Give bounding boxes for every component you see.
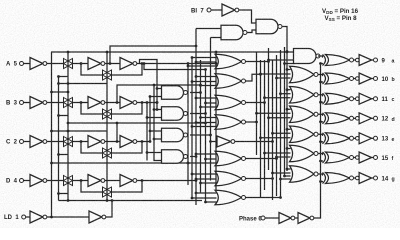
node xyxy=(146,116,149,119)
wire gate input stub xyxy=(269,59,295,61)
inverter latch D2 xyxy=(120,175,137,187)
XOR gate X6 xyxy=(323,152,354,163)
wire feedback right xyxy=(112,142,143,154)
node xyxy=(279,178,282,181)
wire M4 out xyxy=(246,121,257,123)
node xyxy=(286,68,289,71)
wire LD rail vertical xyxy=(51,52,53,217)
node xyxy=(149,130,152,133)
NOR gate R3 segment c xyxy=(290,86,319,103)
input label BI pin 7 xyxy=(191,8,204,14)
NAND gate N4 xyxy=(162,150,188,164)
node xyxy=(286,50,289,53)
wire bus vertical xyxy=(284,47,286,177)
wire data A xyxy=(137,63,216,65)
wire blanking rail xyxy=(283,27,288,172)
wire gate input stub xyxy=(285,175,291,177)
inverter LD first xyxy=(30,211,47,223)
wire phase stub xyxy=(321,63,324,65)
node xyxy=(319,120,322,123)
wire track rowD upper xyxy=(52,162,189,164)
wire track rowB complement xyxy=(117,85,201,103)
wire xyxy=(105,102,120,104)
node xyxy=(195,75,198,78)
inverter C input buffer xyxy=(30,136,47,148)
node xyxy=(153,108,156,111)
node xyxy=(195,153,198,156)
node xyxy=(156,101,159,104)
wire gate input stub xyxy=(265,97,291,99)
node latch output xyxy=(141,101,144,104)
node xyxy=(191,173,194,176)
wire bus vertical xyxy=(276,55,278,196)
wire NAND2 out xyxy=(190,113,206,115)
node xyxy=(199,84,202,87)
node xyxy=(283,175,286,178)
wire stub rowB TG1 top xyxy=(51,91,69,93)
wire phase stub xyxy=(321,121,324,123)
node xyxy=(279,92,282,95)
node latch output xyxy=(141,62,144,65)
node xyxy=(275,156,278,159)
node xyxy=(191,125,194,128)
wire phase rail xyxy=(314,64,321,219)
wire R3 to XOR xyxy=(318,95,323,96)
wire bus vertical xyxy=(264,60,266,190)
wire bus vertical xyxy=(272,60,274,200)
transmission gate TG4b xyxy=(103,187,112,197)
node xyxy=(109,62,112,65)
node xyxy=(319,180,322,183)
wire xyxy=(265,217,279,219)
node xyxy=(286,128,289,131)
XOR gate X2 xyxy=(323,73,354,84)
inverter Ph2 xyxy=(298,213,314,224)
XOR gate X3 xyxy=(323,93,354,104)
wire xyxy=(211,9,222,11)
NOR gate R7 segment g xyxy=(290,166,319,183)
inverter latch C1 xyxy=(88,136,105,148)
output pin 12 segment d xyxy=(374,116,378,120)
node xyxy=(255,112,258,115)
wire gate input stub xyxy=(196,61,217,63)
NOR gate M7 xyxy=(215,190,246,205)
wire xyxy=(24,63,30,65)
wire M6 out xyxy=(246,178,273,180)
node xyxy=(204,112,207,115)
wire gate input stub xyxy=(192,197,217,199)
node xyxy=(259,73,262,76)
node xyxy=(275,157,278,160)
input label Ph pin 6 xyxy=(239,216,262,222)
wire gate input stub xyxy=(188,65,217,67)
wire data B xyxy=(137,102,157,104)
output pin 10 segment b xyxy=(374,77,378,81)
wire gate input stub xyxy=(188,162,217,164)
inverter BI xyxy=(222,4,239,16)
node xyxy=(187,162,190,165)
node xyxy=(204,158,207,161)
node xyxy=(116,101,119,104)
wire gate input stub xyxy=(281,93,291,95)
output pin 11 segment c xyxy=(374,97,378,101)
wire xyxy=(105,180,120,182)
wire gate input stub xyxy=(285,63,295,65)
wire bus vertical xyxy=(195,29,197,206)
wire gate input stub xyxy=(277,156,291,158)
node xyxy=(319,62,322,65)
wire xyxy=(47,141,64,143)
wire phase stub xyxy=(321,141,324,143)
node xyxy=(195,178,198,181)
node xyxy=(153,138,156,141)
inverter B input buffer xyxy=(30,97,47,109)
NOR gate M1 xyxy=(215,54,246,69)
wire gate input stub xyxy=(196,178,217,180)
node xyxy=(195,155,198,158)
NOR gate R5 segment e xyxy=(290,126,319,143)
node xyxy=(156,87,159,90)
wire xyxy=(157,88,162,90)
node xyxy=(286,51,289,54)
output label 9 a xyxy=(382,58,386,64)
wire gate input stub xyxy=(206,201,217,203)
node xyxy=(263,101,266,104)
wire R1 to XOR xyxy=(318,56,323,57)
node xyxy=(209,134,212,137)
wire blanking stub xyxy=(287,89,291,91)
input pin BI xyxy=(207,8,211,12)
node xyxy=(67,91,70,94)
wire gate input stub xyxy=(192,126,217,128)
output pin 14 segment g xyxy=(374,176,378,180)
wire R5 to XOR xyxy=(318,134,323,135)
wire xyxy=(26,216,30,218)
node xyxy=(263,152,266,155)
wire LD top bus to segment a gate xyxy=(51,51,294,53)
transmission gate TG2a xyxy=(64,98,73,108)
wire TG1 control rail xyxy=(67,52,69,201)
output buffer 13 xyxy=(356,137,360,141)
wire gate input stub xyxy=(261,137,291,139)
wire bus vertical xyxy=(256,52,258,155)
wire LD-bar bottom bus xyxy=(59,200,203,202)
NAND gate blanking B2 xyxy=(256,19,282,34)
wire xyxy=(248,30,257,33)
node xyxy=(57,82,60,85)
node xyxy=(191,56,194,59)
node xyxy=(199,106,202,109)
wire NAND1 out xyxy=(190,92,201,94)
node xyxy=(191,197,194,200)
input label B pin 3 xyxy=(6,101,18,107)
wire gate input stub xyxy=(196,153,217,155)
node xyxy=(195,121,198,124)
output pin 9 segment a xyxy=(374,58,378,62)
node xyxy=(255,121,258,124)
node xyxy=(195,192,198,195)
node xyxy=(195,97,198,100)
node xyxy=(279,196,282,199)
NOR gate M2 xyxy=(215,74,246,89)
input pin LD xyxy=(22,215,26,219)
wire feedback left xyxy=(81,142,103,154)
wire feedback left xyxy=(81,103,103,115)
wire xyxy=(47,180,64,182)
wire M7 out xyxy=(246,197,281,199)
XOR gate X7 xyxy=(323,173,354,184)
node xyxy=(286,88,289,91)
wire data D xyxy=(137,180,196,182)
wire bus vertical xyxy=(191,57,193,198)
wire xyxy=(354,98,356,100)
output buffer 10 xyxy=(356,77,360,81)
node xyxy=(57,114,60,117)
node xyxy=(195,61,198,64)
node xyxy=(204,68,207,71)
wire xyxy=(354,78,356,80)
node xyxy=(111,199,114,202)
node xyxy=(209,140,212,143)
wire xyxy=(372,59,374,61)
node xyxy=(199,91,202,94)
wire xyxy=(73,180,89,182)
wire M3 out xyxy=(246,102,265,104)
power label VSS = Pin 8 xyxy=(325,15,358,22)
wire gate input stub xyxy=(281,178,291,180)
NOR gate R4 segment d xyxy=(290,106,319,123)
wire xyxy=(354,59,356,61)
wire xyxy=(47,102,64,104)
NAND gate N2 xyxy=(162,107,188,121)
wire bus vertical xyxy=(280,50,282,198)
node xyxy=(195,45,198,48)
node xyxy=(319,81,322,84)
wire M2 out xyxy=(246,74,261,81)
wire feedback left xyxy=(81,181,103,193)
NOR gate R6 segment f xyxy=(290,145,319,162)
wire bus vertical xyxy=(260,60,262,198)
input pin C xyxy=(20,140,24,144)
NAND gate N1 xyxy=(162,86,188,100)
input pin A xyxy=(20,62,24,66)
output pin 15 segment f xyxy=(374,156,378,160)
wire TG control stub xyxy=(59,115,69,117)
inverter latch A2 xyxy=(120,58,137,70)
wire gate input stub xyxy=(277,77,291,79)
node latch input xyxy=(80,140,83,143)
wire R2 to XOR xyxy=(318,75,323,76)
wire TG control stub xyxy=(59,193,69,195)
inverter A input buffer xyxy=(30,58,47,70)
wire gate input stub xyxy=(265,152,291,154)
node xyxy=(153,84,156,87)
wire track y69 xyxy=(144,64,206,70)
wire xyxy=(372,78,374,80)
inverter latch A1 xyxy=(88,58,105,70)
wire blanking stub xyxy=(287,148,291,150)
node xyxy=(67,199,70,202)
node xyxy=(271,132,274,135)
wire xyxy=(354,157,356,159)
wire feedback left xyxy=(81,64,103,76)
inverter latch C2 xyxy=(120,136,137,148)
wire xyxy=(150,130,162,132)
wire xyxy=(105,141,120,143)
XOR gate X4 xyxy=(323,113,354,124)
wire xyxy=(211,37,222,39)
wire xyxy=(372,137,374,139)
XOR gate X1 xyxy=(323,55,354,66)
wire phase stub xyxy=(321,181,324,183)
wire bus vertical xyxy=(210,38,212,181)
wire gate input stub xyxy=(201,117,217,119)
node xyxy=(271,140,274,143)
node xyxy=(275,77,278,80)
wire phase stub xyxy=(321,160,324,162)
NOR gate M4 xyxy=(215,115,246,130)
input label A pin 5 xyxy=(6,62,18,68)
wire xyxy=(154,109,162,111)
node xyxy=(204,201,207,204)
wire gate input stub xyxy=(196,97,217,99)
NOR gate M5 xyxy=(215,151,246,166)
wire track rowA complement xyxy=(110,46,196,64)
node xyxy=(149,140,152,143)
inverter M8 xyxy=(211,141,218,143)
wire track y59 xyxy=(140,60,158,110)
node xyxy=(156,101,159,104)
node xyxy=(156,108,159,111)
wire xyxy=(105,63,120,65)
node xyxy=(204,102,207,105)
node xyxy=(215,62,218,65)
inverter Ph1 xyxy=(279,213,295,224)
wire xyxy=(372,98,374,100)
node xyxy=(50,130,53,133)
wire rail x58 xyxy=(58,77,60,201)
node xyxy=(286,147,289,150)
wire phase stub xyxy=(321,81,324,83)
wire xyxy=(147,152,162,154)
inverter latch D1 xyxy=(88,175,105,187)
node xyxy=(50,91,53,94)
wire feeder x147 xyxy=(146,103,148,161)
wire gate input stub xyxy=(206,102,217,104)
output buffer 12 xyxy=(356,117,360,121)
node xyxy=(146,151,149,154)
NAND gate N3 xyxy=(162,128,188,142)
input pin Ph xyxy=(261,216,265,220)
wire feedback right xyxy=(112,181,143,193)
wire bus vertical xyxy=(205,70,207,203)
wire stub rowC TG1 top xyxy=(51,130,107,132)
inverter D input buffer xyxy=(30,175,47,187)
output buffer 11 xyxy=(356,97,360,101)
wire R6 to XOR xyxy=(318,154,323,155)
input pin B xyxy=(20,101,24,105)
wire NAND3 out xyxy=(190,134,211,136)
wire gate input stub xyxy=(261,73,291,75)
input label D pin 4 xyxy=(6,179,18,185)
wire TG2 control rail xyxy=(106,52,108,201)
transmission gate TG4a xyxy=(64,176,73,186)
NOR gate M3 xyxy=(215,95,246,110)
output buffer 15 xyxy=(356,156,360,160)
input label C pin 2 xyxy=(6,140,18,146)
transmission gate TG1a xyxy=(64,59,73,69)
output label 12 d xyxy=(382,117,389,123)
node xyxy=(187,62,190,65)
wire xyxy=(73,102,89,104)
output label 11 c xyxy=(382,97,389,103)
wire gate input stub xyxy=(201,85,217,87)
input pin D xyxy=(20,179,24,183)
wire xyxy=(147,117,162,119)
node xyxy=(187,162,190,165)
node xyxy=(143,62,146,65)
node xyxy=(199,116,202,119)
node xyxy=(57,75,60,78)
wire xyxy=(196,28,221,30)
node xyxy=(199,182,202,185)
wire gate input stub xyxy=(257,112,291,114)
wire gate input stub xyxy=(192,173,217,175)
wire LD-bar riser xyxy=(106,201,112,218)
wire blanking stub xyxy=(287,108,291,110)
wire gate input stub xyxy=(269,117,291,119)
wire xyxy=(24,102,30,104)
node xyxy=(259,136,262,139)
wire feedback right xyxy=(112,103,143,115)
node xyxy=(67,130,70,133)
wire gate input stub xyxy=(196,76,217,78)
node latch input xyxy=(80,179,83,182)
NAND gate blanking B1 xyxy=(221,25,247,40)
node xyxy=(57,153,60,156)
node latch input xyxy=(80,101,83,104)
inverter latch B1 xyxy=(88,97,105,109)
node xyxy=(319,101,322,104)
wire M1 out xyxy=(246,61,269,63)
wire stub rowA TG2 bottom xyxy=(59,83,108,85)
output buffer 14 xyxy=(356,176,360,180)
wire xyxy=(24,141,30,143)
wire bus vertical xyxy=(215,52,217,190)
wire xyxy=(47,63,64,65)
wire R4 to XOR xyxy=(318,114,323,115)
wire xyxy=(150,96,162,98)
output buffer 9 xyxy=(356,58,360,62)
node xyxy=(57,192,60,195)
wire xyxy=(295,217,298,219)
wire gate input stub xyxy=(192,57,217,59)
node xyxy=(267,60,270,63)
wire xyxy=(154,138,162,140)
wire feeder x154 xyxy=(153,85,155,153)
wire track y123 xyxy=(68,122,206,124)
wire track rowC complement xyxy=(116,123,118,142)
transmission gate TG2b xyxy=(103,109,112,119)
output label 15 f xyxy=(382,156,389,162)
wire xyxy=(372,117,374,119)
output label 10 b xyxy=(382,77,389,83)
node xyxy=(267,116,270,119)
wire xyxy=(372,157,374,159)
node xyxy=(204,122,207,125)
XOR gate X5 xyxy=(323,133,354,144)
node xyxy=(67,51,70,54)
